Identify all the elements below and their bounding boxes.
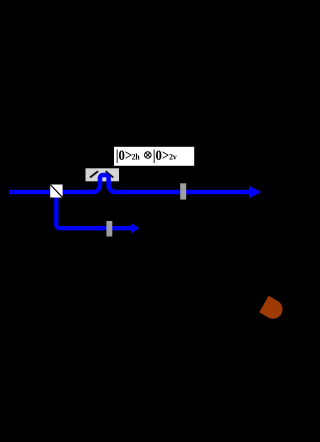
prism chevron right facet [106,171,114,177]
waveplate P2 on reflected beam [106,221,112,237]
tensor product symbol [145,152,152,159]
prism chevron left facet [90,171,98,177]
state label box [114,147,194,166]
svg-text:2v: 2v [169,152,178,161]
detector D [259,296,286,322]
svg-text:2h: 2h [132,152,141,161]
reflected beam (down then right) [56,198,131,229]
main beam with delay-line arch [9,175,250,192]
svg-text:|0>: |0> [116,147,132,163]
retroreflector prism box [86,168,120,181]
svg-text:|0>: |0> [153,147,169,163]
waveplate P1 on main beam [180,183,186,199]
beam splitter BS [50,185,62,198]
reflected beam arrowhead [131,223,139,234]
main beam arrowhead [249,186,261,199]
